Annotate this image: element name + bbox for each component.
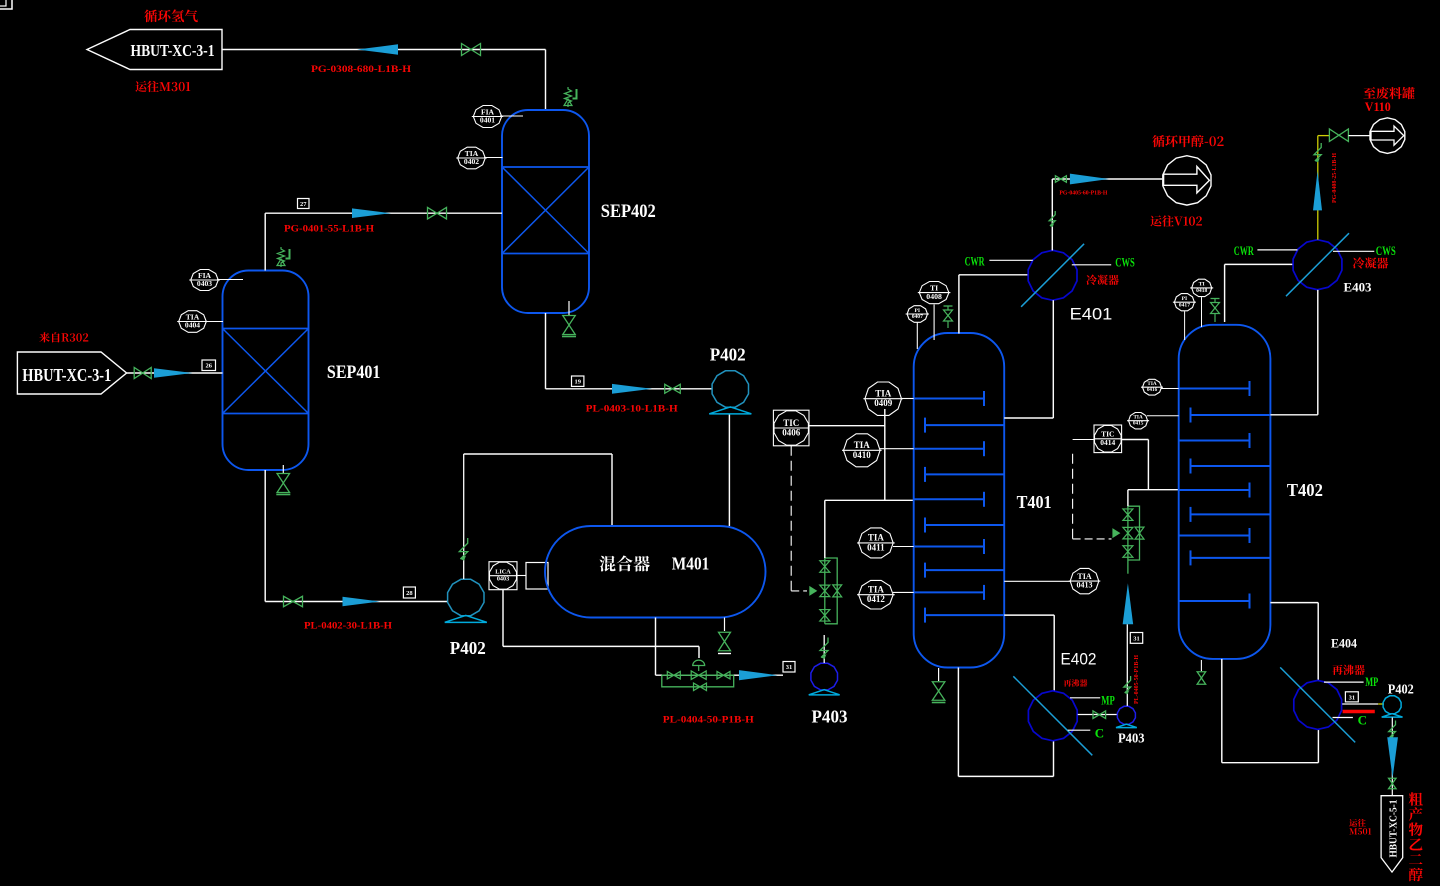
svg-text:PL-0402-30-L1B-H: PL-0402-30-L1B-H [304, 621, 392, 632]
vessel SEP402 [502, 110, 589, 313]
relief valve on T401 top [944, 305, 953, 307]
label 冷凝器 E403 [1353, 257, 1389, 268]
pump P403 small [1117, 706, 1135, 724]
tag 31 [1345, 692, 1358, 702]
label 粗产物乙二醇 vertical [1409, 792, 1423, 806]
valve on bottoms line [284, 596, 294, 607]
relief valve on SEP402 top [565, 87, 572, 107]
pump P403 [811, 663, 838, 690]
drain valve below SEP401 [282, 465, 284, 473]
svg-text:CWS: CWS [1115, 254, 1135, 269]
instrument TIC 0406 [773, 410, 809, 446]
svg-text:0417: 0417 [1179, 302, 1190, 308]
instrument PI 0407 [907, 306, 927, 323]
svg-text:0410: 0410 [853, 450, 872, 460]
instrument TIA 0413 [1070, 568, 1099, 593]
svg-text:PI: PI [1182, 296, 1188, 302]
wire T402 overhead to E403 [1224, 264, 1226, 322]
red utility line [1343, 710, 1375, 714]
MP steam line [1070, 697, 1100, 699]
CWS label [1072, 264, 1111, 266]
signal zigzag on vent line [1049, 211, 1055, 226]
instrument TIA 0404 [179, 311, 207, 333]
svg-text:0416: 0416 [1147, 387, 1158, 393]
instrument TIA 0412 [859, 580, 894, 609]
wire T401 bottoms loop [957, 668, 959, 777]
off-page flag HBUT-XC-3-1 to M301 [87, 30, 222, 70]
instrument TIC 0414 [1094, 425, 1122, 453]
svg-text:TIA: TIA [868, 585, 885, 595]
wire P403 riser to T402 feed [1126, 624, 1128, 706]
drain valve below SEP402 [568, 301, 570, 315]
svg-text:P402: P402 [710, 345, 746, 365]
svg-text:0401: 0401 [480, 116, 495, 125]
tag 26 [202, 360, 216, 371]
svg-text:PG-0308-680-L1B-H: PG-0308-680-L1B-H [311, 64, 411, 75]
svg-text:M401: M401 [672, 554, 710, 574]
label 至废料罐 [1364, 87, 1415, 99]
drain valve below T402 [1200, 660, 1202, 671]
wire recycle hydrogen line [222, 49, 546, 51]
instrument TIA 0410 [844, 434, 881, 467]
wire E401 reflux to T401 [1052, 300, 1054, 418]
svg-text:0403: 0403 [197, 279, 212, 288]
condensate C line [1068, 729, 1091, 731]
valve on P402 suction [665, 384, 673, 393]
wire T402 bottoms loop [1221, 659, 1223, 763]
signal dashed TIC 0414 to control valve [1073, 439, 1094, 441]
wire TIC 0414 connector [1122, 439, 1149, 441]
mixer nozzle box [526, 563, 548, 590]
flow arrow right [154, 368, 193, 378]
off-page symbol to V102 [1163, 156, 1211, 205]
mixer M401 [545, 526, 766, 618]
svg-text:T401: T401 [1017, 492, 1052, 512]
condenser E403 [1293, 240, 1342, 290]
svg-text:0412: 0412 [867, 594, 886, 604]
instrument TIA 0409 [865, 382, 902, 415]
relief valve on T402 top [1211, 298, 1220, 300]
instrument TI 0408 [919, 282, 949, 304]
flow arrow down [1387, 737, 1398, 778]
valve on hydrogen line [462, 44, 472, 56]
svg-text:E403: E403 [1344, 281, 1372, 295]
instrument TIA 0411 [859, 528, 894, 558]
svg-text:31: 31 [1133, 635, 1140, 642]
svg-text:V110: V110 [1365, 100, 1391, 114]
label 来自R302 [39, 332, 88, 342]
svg-text:26: 26 [206, 363, 213, 370]
svg-text:P402: P402 [450, 638, 486, 658]
label 运往M501 [1349, 819, 1366, 827]
wire E404 to P402 [1342, 703, 1378, 705]
valve on V110 line [1329, 129, 1339, 141]
off-page symbol to V110 [1370, 118, 1405, 154]
svg-text:PG-0401-55-L1B-H: PG-0401-55-L1B-H [284, 224, 374, 235]
wire T401 overhead to E401 [958, 275, 960, 334]
wire LICA to control valve [502, 590, 504, 647]
valve on product line [1389, 778, 1397, 783]
wire manifold to T401 feed line [824, 500, 826, 558]
svg-text:HBUT-XC-3-1: HBUT-XC-3-1 [131, 41, 215, 60]
svg-text:0408: 0408 [926, 292, 942, 301]
drain valve below T401 [938, 668, 940, 681]
tag 27 [298, 199, 310, 209]
vessel SEP401 [223, 271, 309, 471]
svg-text:HBUT-XC-5-1: HBUT-XC-5-1 [1388, 800, 1400, 858]
svg-text:31: 31 [786, 664, 793, 671]
instrument PI 0417 [1174, 294, 1194, 311]
svg-text:TIC: TIC [783, 418, 799, 428]
svg-text:CWR: CWR [965, 254, 985, 269]
wire P402a discharge into M401 [728, 415, 730, 527]
wire E402 to P403 [1078, 714, 1118, 716]
svg-text:0403: 0403 [497, 575, 509, 582]
svg-text:PL-0403-10-L1B-H: PL-0403-10-L1B-H [586, 404, 678, 415]
flow arrow right [352, 208, 391, 218]
svg-text:PG-0408-25-L1B-H: PG-0408-25-L1B-H [1332, 153, 1338, 203]
wire P402 discharge to M401 [464, 453, 612, 455]
label 冷凝器 E401 [1086, 275, 1119, 286]
svg-text:T402: T402 [1287, 480, 1323, 500]
svg-text:27: 27 [300, 201, 307, 208]
signal zigzag on vent [1314, 143, 1321, 161]
condensate C line [1333, 717, 1353, 719]
control valve station on T401 feed [824, 558, 826, 624]
relief valve on SEP401 top [278, 247, 285, 267]
instrument LICA 0403 [489, 562, 517, 590]
wire E403 vent to V110 (yellow) [1317, 136, 1319, 240]
svg-text:TIA: TIA [854, 440, 871, 450]
valve on vent line [1055, 176, 1061, 183]
svg-text:E401: E401 [1070, 306, 1113, 324]
wire T402 vapor to E404 [1270, 602, 1318, 604]
flow arrow right [612, 384, 652, 394]
svg-text:28: 28 [406, 590, 413, 597]
tag 31 [1130, 633, 1142, 644]
svg-text:TIA: TIA [875, 389, 892, 399]
flow arrow up [1313, 171, 1322, 210]
drain valve below M401 [724, 618, 726, 632]
control valve station on M401 bottoms [662, 674, 734, 676]
wire manifold to T402 feed [1127, 490, 1129, 507]
wire SEP401 overhead to SEP402 [264, 213, 266, 270]
svg-text:SEP402: SEP402 [601, 202, 656, 222]
svg-text:0407: 0407 [912, 314, 923, 320]
svg-text:0418: 0418 [1196, 288, 1207, 294]
svg-text:E402: E402 [1061, 651, 1097, 669]
svg-text:MP: MP [1101, 693, 1115, 708]
pump P402 lower [448, 579, 484, 615]
label 再沸器 E404 [1332, 665, 1365, 675]
svg-text:MP: MP [1365, 674, 1378, 689]
svg-text:C: C [1358, 713, 1367, 728]
instrument TIA 0415 [1129, 413, 1148, 429]
instrument FIA 0401 [473, 106, 501, 128]
feed flag HBUT-XC-3-1 from R302 [17, 352, 126, 394]
condenser E401 [1028, 250, 1077, 300]
svg-text:0409: 0409 [874, 398, 893, 408]
flow arrow right [1070, 174, 1109, 185]
wire M401 bottoms [655, 618, 657, 676]
column T402 [1179, 325, 1271, 659]
wire E403 reflux to T402 [1317, 290, 1319, 415]
svg-text:TIA: TIA [868, 533, 885, 543]
label 再沸器 E402 [1064, 679, 1088, 686]
instrument TIA 0402 [458, 147, 486, 169]
svg-text:E404: E404 [1331, 637, 1358, 651]
flow arrow right to P403 [739, 670, 778, 680]
svg-text:0414: 0414 [1100, 438, 1115, 447]
flow arrow left [357, 44, 398, 54]
CWS label [1333, 250, 1374, 252]
svg-text:0415: 0415 [1133, 420, 1144, 426]
tag 28 [403, 587, 415, 598]
svg-text:PI: PI [915, 308, 921, 314]
svg-text:0413: 0413 [1077, 581, 1093, 590]
svg-text:SEP401: SEP401 [327, 363, 381, 383]
svg-text:CWR: CWR [1234, 243, 1254, 258]
label 循环甲醇-02 [1152, 135, 1223, 147]
signal zigzag above P403 [823, 635, 825, 663]
pump P402 small [1383, 696, 1401, 714]
instrument FIA 0403 [191, 270, 219, 291]
label 循环氢气 [144, 10, 198, 23]
product flag HBUT-XC-5-1 [1381, 796, 1403, 872]
wire TIC 0406 to feed line [809, 425, 885, 427]
tag 19 [572, 376, 584, 386]
svg-text:P403: P403 [1118, 732, 1145, 747]
signal dashed TIC 0406 to control valve [790, 446, 792, 591]
signal zigzag [1389, 721, 1396, 738]
svg-text:CWS: CWS [1376, 243, 1396, 258]
label 运往M301 [135, 81, 190, 92]
svg-text:C: C [1095, 726, 1104, 741]
instrument TIA 0416 [1143, 379, 1162, 395]
wire feed to SEP401 [127, 372, 223, 374]
svg-text:P403: P403 [812, 707, 848, 727]
valve on SEP401 feed [134, 368, 143, 379]
instrument TI 0418 [1192, 279, 1212, 296]
valve on E402 outlet [1093, 711, 1099, 719]
svg-text:TIA: TIA [1077, 572, 1091, 581]
MP steam line [1324, 681, 1364, 683]
flow arrow up [1123, 583, 1134, 624]
svg-text:31: 31 [1349, 694, 1356, 701]
column T401 [914, 333, 1005, 668]
label 运往V102 [1150, 215, 1202, 226]
svg-text:PL-0404-50-P1B-H: PL-0404-50-P1B-H [663, 715, 754, 726]
svg-text:19: 19 [574, 379, 581, 386]
trays T401 [914, 398, 984, 400]
wire product line down [1391, 718, 1393, 797]
reboiler E402 [1028, 691, 1077, 741]
control valve station on T402 feed [1127, 506, 1129, 560]
svg-text:P402: P402 [1388, 682, 1414, 697]
svg-text:0406: 0406 [782, 428, 801, 438]
trays T402 [1179, 388, 1250, 390]
signal zigzag on riser [1124, 676, 1131, 693]
signal zigzag above P402 [463, 454, 465, 579]
reboiler E404 [1294, 680, 1342, 729]
tag 31 [783, 662, 795, 673]
wire SEP402 bottoms to P402 [545, 313, 547, 389]
svg-text:TI: TI [1199, 282, 1205, 288]
wire T401 vapor to E402 [1004, 614, 1054, 616]
border icon top-left [0, 0, 12, 9]
wire SEP401 bottoms to P402 [264, 470, 266, 602]
pump P402 upper [712, 371, 748, 407]
svg-text:PG-0405-60-P1B-H: PG-0405-60-P1B-H [1059, 191, 1107, 197]
svg-text:PL-0405-50-P1B-H: PL-0405-50-P1B-H [1134, 655, 1140, 704]
svg-text:0411: 0411 [867, 542, 885, 552]
svg-text:0402: 0402 [464, 157, 479, 166]
wire E401 vent to V102 [1051, 179, 1053, 250]
svg-text:HBUT-XC-3-1: HBUT-XC-3-1 [22, 365, 111, 385]
valve on SEP402 feed [428, 207, 438, 219]
svg-text:0404: 0404 [185, 321, 200, 330]
flow arrow right [343, 597, 381, 607]
